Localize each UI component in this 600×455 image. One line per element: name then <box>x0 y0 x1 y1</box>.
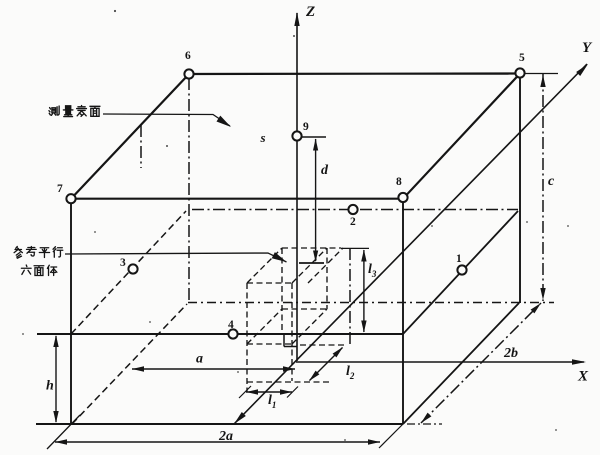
svg-text:8: 8 <box>396 176 402 188</box>
svg-text:4: 4 <box>228 319 234 331</box>
svg-text:Z: Z <box>305 4 315 20</box>
svg-text:l2: l2 <box>346 364 355 381</box>
svg-text:7: 7 <box>57 183 63 195</box>
svg-text:9: 9 <box>303 121 309 133</box>
svg-text:l3: l3 <box>368 262 377 279</box>
svg-text:3: 3 <box>120 257 126 269</box>
svg-text:c: c <box>548 174 555 189</box>
svg-text:1: 1 <box>456 253 462 265</box>
svg-text:6: 6 <box>185 50 191 62</box>
svg-text:X: X <box>577 369 589 385</box>
svg-text:h: h <box>46 379 54 394</box>
svg-text:2a: 2a <box>218 429 233 444</box>
svg-text:5: 5 <box>519 52 525 64</box>
svg-text:s: s <box>260 130 266 145</box>
svg-text:2: 2 <box>350 216 356 228</box>
svg-text:d: d <box>321 163 329 178</box>
svg-text:Y: Y <box>582 40 593 56</box>
svg-text:l1: l1 <box>268 393 276 410</box>
svg-text:a: a <box>196 352 203 367</box>
svg-text:2b: 2b <box>503 346 518 361</box>
